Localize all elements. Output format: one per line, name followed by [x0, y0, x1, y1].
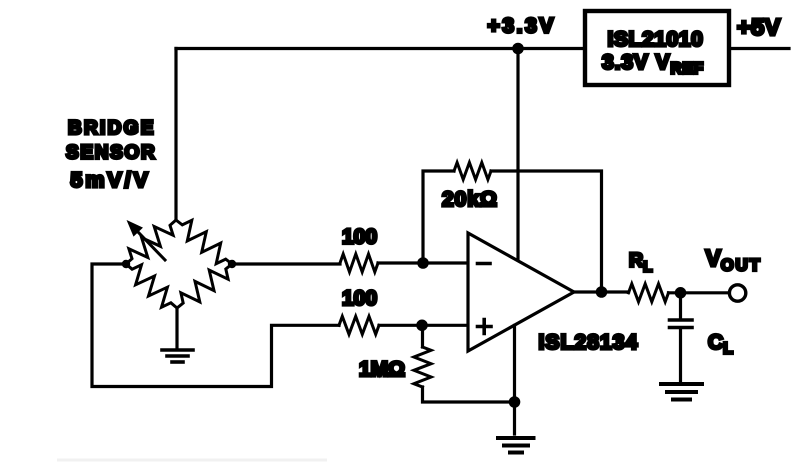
- variable-element arrow through bridge top-left resistor: [133, 227, 165, 260]
- ground (CL): [661, 384, 702, 400]
- wire left vertical drop to bridge top: [174, 49, 177, 221]
- svg-text:ISL28134: ISL28134: [539, 331, 639, 354]
- voltage reference U2 ISL21010 box: [585, 11, 729, 85]
- wire bridge bottom to ground: [175, 308, 178, 349]
- bridge sensor resistor top-right: [176, 220, 232, 264]
- resistor 100 (minus input): [340, 254, 378, 272]
- wire bridge right node to - input resistor: [232, 262, 340, 265]
- ground (bridge): [162, 350, 193, 362]
- node bridge left: [122, 260, 130, 268]
- resistor RL: [629, 284, 669, 302]
- faint cut-off caption at bottom edge: [57, 459, 327, 462]
- wire 100 resistor to op-amp minus input: [378, 261, 468, 264]
- svg-text:BRIDGE: BRIDGE: [68, 118, 156, 139]
- svg-text:5mV/V: 5mV/V: [71, 168, 151, 192]
- node bridge right: [228, 260, 236, 268]
- op-amp U1 ISL28134 triangle: [468, 233, 574, 351]
- wire op-amp output: [574, 290, 629, 293]
- svg-text:20kΩ: 20kΩ: [442, 188, 498, 211]
- wire +5V input to ISL21010: [729, 47, 789, 50]
- svg-text:RL: RL: [629, 250, 652, 276]
- op-amp plus symbol: [478, 320, 492, 334]
- node ground junction: [509, 396, 521, 408]
- bridge sensor resistor bottom-right: [177, 264, 232, 308]
- node +3.3V junction: [512, 43, 524, 55]
- node output junction: [596, 286, 608, 298]
- capacitor CL: [679, 293, 682, 318]
- svg-text:VOUT: VOUT: [706, 245, 762, 275]
- svg-text:100: 100: [342, 226, 377, 249]
- wire RL to output terminal: [669, 291, 729, 294]
- resistor 100 (plus input): [339, 316, 379, 334]
- svg-text:+3.3V: +3.3V: [488, 15, 556, 38]
- ground (op-amp supply): [498, 438, 534, 453]
- wire 100 resistor to op-amp plus input: [379, 324, 468, 327]
- svg-text:ISL21010: ISL21010: [608, 28, 704, 51]
- resistor 1M from plus node to ground rail: [421, 325, 424, 347]
- svg-text:100: 100: [342, 287, 377, 310]
- terminal VOUT open circle: [729, 285, 745, 301]
- wire feedback from minus node up and across: [423, 171, 602, 292]
- svg-text:1MΩ: 1MΩ: [359, 358, 405, 381]
- wire top rail +3.3V: [176, 47, 585, 50]
- wire bridge left node feedback loop to + input: [92, 264, 339, 387]
- node minus input junction: [417, 257, 429, 269]
- node plus input junction: [416, 320, 428, 332]
- wire 1M bottom to ground junction: [423, 387, 515, 402]
- bridge sensor resistor top-left (variable): [126, 220, 176, 264]
- svg-text:SENSOR: SENSOR: [66, 143, 156, 164]
- op-amp minus symbol: [478, 262, 491, 266]
- wire +3.3V supply drop to op-amp V+ pin: [516, 49, 519, 262]
- wire op-amp V- pin to ground junction: [513, 326, 516, 435]
- svg-text:+5V: +5V: [737, 14, 781, 40]
- node after RL junction: [675, 287, 687, 299]
- bridge sensor resistor bottom-left: [126, 264, 177, 308]
- resistor 20k feedback: [454, 163, 491, 180]
- svg-text:CL: CL: [708, 331, 733, 358]
